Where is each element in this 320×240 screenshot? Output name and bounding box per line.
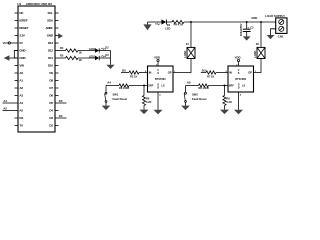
svg-text:IOREF: IOREF: [19, 19, 27, 23]
svg-text:A4: A4: [19, 101, 23, 105]
ground under U2: [154, 110, 163, 115]
svg-text:TX: TX: [19, 124, 23, 128]
wire: [78, 50, 95, 52]
lamp X2 LOAD: [257, 47, 265, 58]
svg-text:ARDUINO UNO R3: ARDUINO UNO R3: [26, 2, 52, 6]
wire net A5: [186, 85, 199, 87]
svg-text:A4: A4: [107, 80, 111, 84]
wire OP to load: [173, 59, 191, 73]
wire net A4: [3, 102, 15, 104]
pin stub left RX: [15, 117, 19, 119]
wire net D5: [59, 102, 67, 104]
svg-text:X1: X1: [186, 42, 190, 46]
pin stub right D5: [55, 102, 59, 104]
switch SW1 Fault Reset: [105, 86, 107, 93]
svg-text:D3: D3: [49, 116, 53, 120]
resistor R4 4.7K: [172, 20, 184, 23]
pin stub right D4: [55, 110, 59, 112]
ground under R6: [140, 110, 149, 115]
svg-text:R9: R9: [227, 96, 231, 100]
svg-text:A5: A5: [19, 109, 23, 113]
resistor R4 1K: [66, 49, 78, 52]
svg-text:Fault Reset: Fault Reset: [192, 97, 207, 101]
wire D11 to resistor: [59, 57, 66, 59]
pin stub right AREF: [55, 27, 59, 29]
svg-text:AREF: AREF: [46, 26, 54, 30]
svg-text:D5: D5: [59, 99, 63, 103]
wire: [148, 21, 162, 23]
svg-text:1K: 1K: [79, 51, 82, 55]
pin stub right SDA: [55, 20, 59, 22]
ground under U3: [234, 110, 243, 115]
svg-text:D6: D6: [49, 94, 53, 98]
pin stub left A4: [15, 102, 19, 104]
svg-text:BTS7960: BTS7960: [235, 77, 246, 81]
svg-text:D12: D12: [48, 49, 53, 53]
svg-text:D11: D11: [48, 56, 53, 60]
pin stub left A3: [15, 95, 19, 97]
svg-text:A5: A5: [187, 80, 191, 84]
resistor R3 100R: [119, 84, 129, 87]
IC U1 ARDUINO UNO R3: [18, 6, 55, 132]
svg-text:D10: D10: [48, 64, 53, 68]
connector CN1 LOAD SUPPLY: [276, 18, 287, 34]
wire right GND: [58, 35, 60, 37]
wire U3 GND pin: [238, 92, 240, 110]
svg-text:SRF: SRF: [229, 84, 235, 88]
svg-text:VDD: VDD: [235, 56, 241, 60]
svg-text:IN: IN: [149, 71, 152, 75]
wire OP to load: [254, 59, 262, 73]
svg-text:RX: RX: [19, 116, 23, 120]
wire: [246, 22, 248, 29]
svg-text:LS: LS: [162, 84, 166, 88]
svg-text:D3: D3: [202, 69, 206, 73]
pin stub right D10: [55, 65, 59, 67]
pin stub right D6: [55, 95, 59, 97]
LED D2: [95, 48, 99, 52]
wire: [246, 32, 248, 37]
LED emission arrows: [156, 23, 160, 25]
svg-text:D13: D13: [48, 41, 53, 45]
svg-text:D8: D8: [49, 79, 53, 83]
svg-text:VDD: VDD: [154, 56, 160, 60]
LED D4: [161, 19, 166, 24]
node junction: [224, 85, 226, 87]
pin stub left 3.3V: [15, 35, 19, 37]
ground CN1: [267, 35, 275, 39]
wire: [209, 85, 229, 87]
ground (left arrow): [4, 55, 10, 60]
resistor R5 1K: [66, 56, 78, 59]
resistor R7 1K: [206, 71, 216, 74]
power terminal VDD U2: [157, 62, 159, 66]
svg-text:0.2K: 0.2K: [146, 100, 152, 104]
node junction: [246, 21, 248, 23]
IC U2 BTS7960: [148, 66, 174, 92]
LED D3: [95, 56, 99, 60]
svg-text:D3: D3: [59, 114, 63, 118]
pin stub right D13: [55, 42, 59, 44]
svg-text:R4: R4: [60, 46, 64, 50]
svg-text:LED3: LED3: [89, 55, 96, 58]
pin stub left A5: [15, 110, 19, 112]
ground (right arrow): [58, 33, 63, 38]
svg-text:CN1: CN1: [278, 34, 284, 38]
wire GND pins tie: [14, 51, 18, 59]
pin stub left A2: [15, 87, 19, 89]
pin stub right D3: [55, 117, 59, 119]
svg-text:SW2: SW2: [192, 92, 198, 96]
wire load to rail: [190, 22, 192, 47]
resistor R6 0.2K: [143, 86, 145, 96]
svg-text:VDD: VDD: [251, 16, 257, 20]
wire to left ground: [9, 57, 14, 59]
wire: [166, 21, 172, 23]
pin stub right D7: [55, 87, 59, 89]
svg-text:GND: GND: [19, 49, 26, 53]
wire load to rail: [260, 22, 262, 47]
svg-text:LED: LED: [165, 26, 170, 30]
svg-text:U1: U1: [17, 2, 21, 6]
pin stub right D2: [55, 125, 59, 127]
svg-text:X2: X2: [256, 42, 260, 46]
svg-text:0.2K: 0.2K: [227, 100, 233, 104]
pin stub right SCL: [55, 12, 59, 14]
resistor R2 1K: [129, 71, 139, 74]
pin stub left RESET: [15, 27, 19, 29]
pin stub left IOREF: [15, 20, 19, 22]
svg-text:GND: GND: [47, 34, 54, 38]
wire net D3: [201, 72, 206, 74]
svg-text:OP: OP: [168, 71, 172, 75]
svg-text:OP: OP: [248, 71, 252, 75]
wire net D3: [59, 117, 67, 119]
pin stub right D8: [55, 80, 59, 82]
capacitor C3 100uF/50V: [243, 28, 251, 30]
ground left of LED D4: [147, 22, 149, 24]
pin stub left 5V: [15, 42, 19, 44]
svg-text:C3: C3: [250, 25, 254, 29]
pin stub left A1: [15, 80, 19, 82]
pin stub left TX: [15, 125, 19, 127]
svg-text:D: D: [238, 86, 240, 89]
svg-text:R5: R5: [60, 54, 64, 58]
svg-text:R4 4.7K: R4 4.7K: [174, 23, 184, 27]
wire LED cathode: [99, 50, 110, 52]
wire: [78, 57, 95, 59]
svg-text:LOAD: LOAD: [254, 51, 257, 58]
ground under C3: [243, 36, 251, 40]
ground under SW2: [181, 106, 190, 111]
svg-text:D4: D4: [49, 109, 53, 113]
wire LED common: [110, 51, 112, 65]
svg-text:LS: LS: [242, 84, 246, 88]
wire CN1 pin2 to ground: [271, 29, 276, 35]
pin stub left GND: [15, 57, 19, 59]
svg-text:D5: D5: [122, 69, 126, 73]
wire: [216, 72, 228, 74]
svg-text:D5: D5: [49, 101, 53, 105]
resistor R8 100R: [199, 84, 209, 87]
svg-text:R6: R6: [146, 96, 150, 100]
pin stub left A0: [15, 72, 19, 74]
wire: [129, 85, 148, 87]
switch SW2 Fault Reset: [185, 86, 187, 93]
wire net A5: [3, 110, 15, 112]
svg-text:R3 100R: R3 100R: [119, 86, 129, 90]
node junction: [143, 85, 145, 87]
svg-text:SRF: SRF: [148, 84, 154, 88]
ground under R9: [220, 110, 229, 115]
svg-text:VCC: VCC: [3, 41, 9, 45]
svg-text:VIN: VIN: [19, 64, 23, 68]
svg-text:A0: A0: [19, 71, 23, 75]
svg-text:D: D: [157, 86, 159, 89]
resistor R9 0.2K: [224, 86, 226, 96]
svg-text:A5: A5: [3, 107, 7, 111]
svg-text:A3: A3: [19, 94, 23, 98]
pin stub left GND: [15, 50, 19, 52]
svg-text:LOAD SUPPLY: LOAD SUPPLY: [265, 14, 285, 18]
power terminal VCC: [10, 42, 14, 44]
svg-text:BTS7960: BTS7960: [155, 77, 166, 81]
svg-text:SW1: SW1: [113, 92, 119, 96]
pin stub right D11: [55, 57, 59, 59]
wire LED cathode: [99, 57, 110, 59]
lamp X1 LOAD: [187, 47, 195, 58]
svg-text:3.3V: 3.3V: [19, 34, 25, 38]
wire VDD rail: [184, 21, 276, 23]
wire: [139, 72, 148, 74]
power terminal VDD U3: [238, 62, 240, 66]
svg-text:LOAD: LOAD: [184, 51, 187, 58]
svg-text:IN: IN: [229, 71, 232, 75]
pin stub right D9: [55, 72, 59, 74]
svg-text:D7: D7: [49, 86, 53, 90]
svg-text:R8 100R: R8 100R: [199, 86, 209, 90]
IC U3 BTS7960: [228, 66, 254, 92]
svg-text:R7 1K: R7 1K: [207, 74, 214, 78]
pin stub left NC: [15, 12, 19, 14]
node junction: [190, 21, 192, 23]
wire D12 to resistor: [59, 50, 66, 52]
svg-text:Fault Reset: Fault Reset: [113, 97, 128, 101]
wire U2 GND pin: [157, 92, 159, 110]
svg-text:RESET: RESET: [19, 26, 28, 30]
wire net D5: [121, 72, 129, 74]
svg-text:A2: A2: [19, 86, 23, 90]
LED emission arrows: [101, 48, 105, 50]
node junction: [260, 21, 262, 23]
svg-text:D2: D2: [49, 124, 53, 128]
svg-text:A4: A4: [3, 99, 7, 103]
svg-text:1K: 1K: [79, 58, 82, 62]
ground under SW1: [102, 106, 111, 111]
svg-text:D9: D9: [49, 71, 53, 75]
pin stub right D12: [55, 50, 59, 52]
pin stub left VIN: [15, 65, 19, 67]
LED emission arrows: [101, 55, 105, 57]
svg-text:5V: 5V: [19, 41, 22, 45]
svg-text:SCL: SCL: [47, 11, 53, 15]
svg-text:GND: GND: [19, 56, 26, 60]
wire net A4: [106, 85, 119, 87]
ground under LEDs: [106, 65, 114, 69]
pin stub right GND: [55, 35, 59, 37]
svg-text:A1: A1: [19, 79, 23, 83]
svg-text:100uF/50V: 100uF/50V: [239, 23, 243, 36]
svg-text:R2 1K: R2 1K: [130, 74, 137, 78]
svg-text:LED2: LED2: [89, 48, 96, 51]
